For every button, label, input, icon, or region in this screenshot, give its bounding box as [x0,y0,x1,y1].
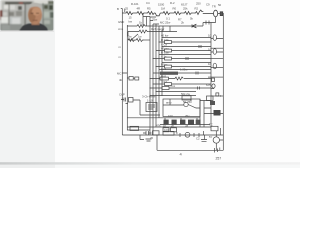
wire y117 row [127,117,200,119]
mark right ne [201,135,207,142]
wire y127 row [127,126,211,128]
wire V3 through [211,38,223,40]
resistor R14 [165,49,172,52]
bus line 5 [161,30,163,96]
bus line 1 [149,17,151,136]
resistor R5 [172,12,183,15]
resistor R12 row4 [136,39,144,42]
terminal cluster bottom line [215,148,220,153]
enclosure box [163,99,200,117]
ticks bottom [180,131,204,137]
resistor R18 [160,77,169,80]
wire left inner [127,25,150,130]
svg-text:250: 250 [196,2,201,6]
wire left border [121,13,123,135]
svg-text:R-101: R-101 [131,2,139,6]
svg-text:25k: 25k [183,7,188,11]
bus line 2 [152,24,154,135]
svg-text:R2: R2 [195,7,199,11]
left cap C4 [121,98,128,104]
wire V5 through [211,67,223,69]
comp left rail box1 [129,77,133,81]
svg-text:GND: GND [118,20,124,24]
tube V6 small [212,84,215,88]
wire row4 to bus [145,39,150,41]
wire row3 [128,26,177,32]
svg-text:R-2: R-2 [170,1,175,5]
svg-text:R C0x: R C0x [161,38,169,42]
box B1 [153,131,160,135]
resistor R2 [135,12,146,15]
bus line 3 [155,24,157,127]
person neck [32,20,40,25]
cap C5 [143,131,152,135]
branch y95.5 [150,95,196,97]
svg-text:cms: cms [118,27,124,31]
wire V1 to C2 [218,13,221,15]
svg-text:amp: amp [166,101,172,105]
wire inside box [163,99,200,108]
branch y78.5 [150,78,211,80]
document page [0,0,300,168]
branch y46.5 [162,45,211,48]
comp right mid dark2 [210,101,215,105]
wire left rail stubs [122,73,135,78]
relay K1 inside [184,102,188,106]
svg-text:C9: C9 [206,3,210,7]
webcam overlay [0,0,54,32]
wire to tube V1 [203,13,214,15]
svg-text:4R: 4R [137,7,141,11]
branch y69.5 [159,69,211,71]
meter box M1 [146,103,157,112]
wire top joiners [143,13,150,26]
resistor R6 [183,12,194,15]
resistor R4 [160,12,172,15]
bus line 4 [158,26,160,118]
meter box inner [148,105,155,109]
resistor R1 [122,12,135,15]
svg-text:40 kw: 40 kw [161,33,169,37]
mark zil [146,139,152,141]
transformer T4 dark [188,120,194,125]
svg-text:1M: 1M [161,7,166,11]
transformer T1 dark [164,120,169,125]
wire y124 [160,118,210,125]
comp left rail box2 [135,77,139,80]
branch y42 [159,41,211,43]
branch y62.5 [162,62,211,64]
transformer T2 dark [172,120,177,125]
face shading [28,9,35,23]
svg-text:25: 25 [125,7,129,11]
svg-text:5Y: 5Y [209,135,213,139]
comp boxes y127 [163,128,169,132]
box top components [182,96,191,100]
resistor R11 row4 [128,39,136,42]
svg-text:C2: C2 [196,137,200,141]
svg-text:C2a: C2a [161,67,167,71]
svg-text:25v: 25v [185,114,190,118]
resistor R3 [146,12,156,15]
svg-text:+ 2x: + 2x [161,54,167,58]
transformer T3 dark [180,120,185,125]
svg-text:257: 257 [216,157,222,161]
svg-text:TC: TC [209,123,213,127]
branch y73 [153,72,211,75]
diode D1 row2 [192,24,196,27]
relay K2 [185,132,190,137]
svg-text:R45: R45 [161,74,167,78]
wire right y48 [211,47,223,49]
junction box lower left [130,126,139,130]
branch y91.5 [156,91,196,93]
svg-text:4R: 4R [119,78,123,82]
resistor R15 [165,57,172,60]
branch y54.5 [159,54,211,56]
wire right y77 [208,76,223,78]
svg-text:R0: R0 [173,7,177,11]
svg-text:MC 25w: MC 25w [160,21,171,25]
capacitor C2 [220,12,223,16]
wire under meter [140,114,160,116]
svg-text:1.25w: 1.25w [180,68,188,72]
person jacket [19,24,48,32]
svg-text:1 Cxx: 1 Cxx [168,84,176,88]
wire left mid [133,100,140,115]
transformer bar dark [160,72,178,75]
svg-text:10: 10 [208,34,212,38]
wire right mid links [200,101,223,114]
svg-text:TR: TR [212,5,216,9]
webcam bottom shadow [0,31,54,32]
svg-text:B: B [117,7,119,11]
resistor R10 row3 [139,30,149,33]
svg-text:100: 100 [164,128,169,132]
eyes mouth [31,13,34,14]
junction dot y96 [220,95,221,96]
svg-text:R0xx: R0xx [161,62,168,66]
schematic group [121,9,224,153]
wire right border [222,13,224,150]
svg-text:50: 50 [218,3,222,7]
tube V7 bottom [213,137,219,143]
resistor R8 row2 [137,25,147,28]
wire V7 [216,128,223,150]
wire V4 through [211,51,223,53]
wire V1 cathode drop [203,17,216,26]
svg-text:50-250: 50-250 [183,100,192,104]
comp right mid dark [214,110,221,116]
wire bottom left drop [140,135,144,140]
resistor R20 [165,83,172,86]
tube V3 [213,35,216,41]
comp box feed1 [212,78,215,81]
svg-text:R5: R5 [147,7,151,11]
svg-text:100: 100 [168,114,173,118]
svg-text:0-ch meter: 0-ch meter [151,27,164,31]
junction dots bus [149,37,211,97]
svg-text:50k 2w: 50k 2w [181,92,191,96]
wire right y96 [211,95,223,97]
wire bottom [157,135,223,150]
branch y58.5 [153,57,211,60]
app sidebar [0,0,55,163]
svg-text:3a: 3a [185,124,189,128]
svg-text:10: 10 [208,62,212,66]
wire right y58 [211,57,223,59]
branch y66.5 [156,66,211,68]
branch y37.5 [162,37,211,39]
resistor R7 [193,10,203,15]
svg-text:10: 10 [208,48,212,52]
resistor R13 [165,41,172,44]
schematic tiny labels [117,1,222,161]
box right y127 [211,126,218,131]
wire row2 [127,25,203,27]
svg-text:C10: C10 [162,80,168,84]
resistor R21 [162,87,169,90]
branch y84 [153,83,211,85]
right mid vertical [200,99,204,127]
node ticks left rail [121,9,125,14]
right feed vertical [210,23,212,128]
choke L1 dark [196,120,201,125]
branch y50.5 [156,50,211,52]
resistor R16 [165,65,172,68]
person hair [27,3,42,16]
svg-text:MC: MC [117,72,121,76]
comp right mid box [207,96,214,101]
branch y88 [150,87,211,90]
comp box feed2 [216,93,219,96]
wire bottom frame [122,134,223,136]
svg-text:6J5: 6J5 [206,83,211,87]
svg-text:C4: C4 [146,1,150,5]
wire stub y88 [211,88,214,90]
resistor R19 zigzag [175,77,183,80]
diagonal strap [128,32,138,41]
svg-text:1-10: 1-10 [147,99,153,103]
box B2 [163,131,174,135]
tube V5 [213,63,216,69]
tube V4 [213,49,216,55]
tube V1 envelope [214,10,218,17]
bus top taps [150,17,159,24]
svg-text:47k: 47k [156,124,161,128]
person head [28,5,42,24]
svg-text:CAP: CAP [119,93,125,97]
left comp box [129,98,134,103]
svg-text:20: 20 [150,136,154,140]
capacitor C1 dip [155,13,160,16]
